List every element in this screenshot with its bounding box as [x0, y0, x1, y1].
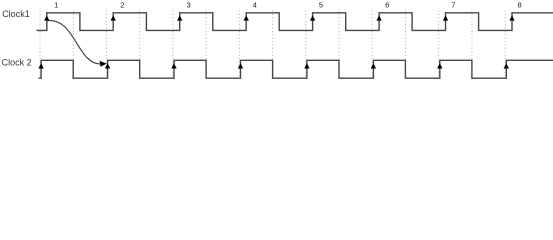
gridline t12 — [438, 11, 440, 79]
gridline t8 — [305, 11, 307, 79]
svg-text:Clock 2: Clock 2 — [2, 58, 32, 68]
Clock1 rising-edge arrow 7 — [443, 15, 448, 20]
svg-text:Clock1: Clock1 — [2, 9, 30, 19]
Clock1 rising-edge arrow 6 — [376, 15, 381, 20]
svg-text:2: 2 — [120, 1, 124, 10]
svg-text:1: 1 — [54, 1, 58, 10]
Clock1 rising-edge arrow 3 — [177, 15, 182, 20]
gridline t0 — [39, 11, 41, 79]
Clock1 rising-edge arrow 1 — [44, 15, 49, 20]
gridline t11 — [405, 11, 407, 79]
Clock1 rising-edge arrow 2 — [111, 15, 116, 20]
Clock 2 rising-edge arrow 8 — [504, 63, 509, 68]
gridline t13 — [471, 11, 473, 79]
gridline t4 — [172, 11, 174, 79]
gridline t6 — [238, 11, 240, 79]
gridline t10 — [371, 11, 373, 79]
Clock 2 rising-edge arrow 5 — [304, 63, 309, 68]
Clock 2 rising-edge arrow 3 — [171, 63, 176, 68]
signal Clock 2 waveform — [39, 60, 553, 78]
Clock 2 rising-edge arrow 6 — [371, 63, 376, 68]
Clock1 rising-edge arrow 8 — [509, 15, 514, 20]
Clock 2 rising-edge arrow 7 — [437, 63, 442, 68]
Clock 2 rising-edge arrow 1 — [38, 63, 43, 68]
svg-text:3: 3 — [186, 1, 190, 10]
gridline t7 — [272, 11, 274, 79]
signal Clock1 waveform — [37, 13, 553, 31]
gridline t3 — [139, 11, 141, 79]
svg-text:6: 6 — [385, 1, 389, 10]
svg-text:7: 7 — [451, 1, 455, 10]
svg-text:8: 8 — [517, 1, 521, 10]
gridline t1 — [72, 11, 74, 79]
gridline t5 — [205, 11, 207, 79]
gridline t2 — [106, 11, 108, 79]
Clock1 rising-edge arrow 4 — [244, 15, 249, 20]
Clock 2 rising-edge arrow 4 — [238, 63, 243, 68]
svg-text:5: 5 — [319, 1, 323, 10]
gridline t9 — [338, 11, 340, 79]
Clock1 rising-edge arrow 5 — [310, 15, 315, 20]
dependency arrow from Clock1 edge 1 to Clock 2 edge 2 — [47, 21, 101, 65]
Clock 2 rising-edge arrow 2 — [105, 63, 110, 68]
svg-text:4: 4 — [253, 1, 257, 10]
gridline t14 — [504, 11, 506, 79]
